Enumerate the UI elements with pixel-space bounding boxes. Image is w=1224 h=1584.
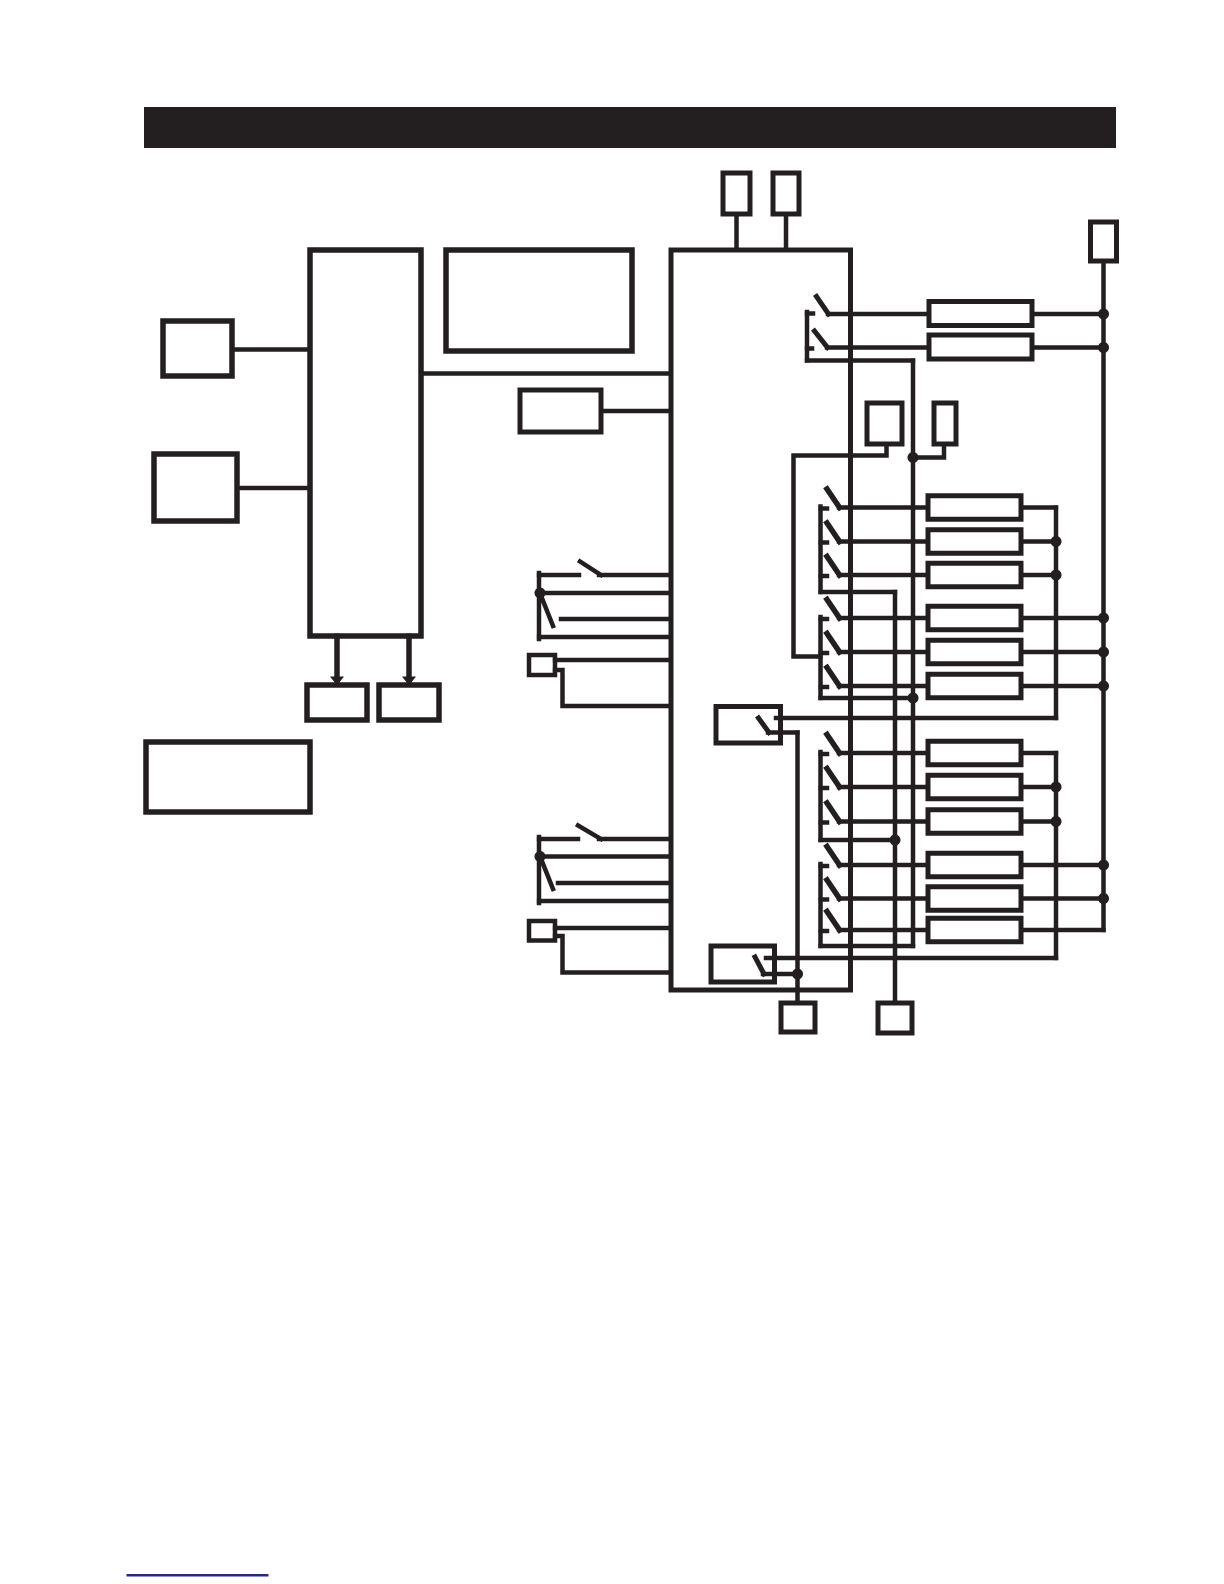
motor box M4: [928, 606, 1021, 630]
switch SW11 stub: [821, 897, 828, 902]
sensor P1: [529, 655, 555, 675]
arrowhead L2: [402, 677, 416, 686]
wire node B to main box: [539, 854, 671, 859]
wire bracket SW1-3 to node V2: [821, 590, 896, 595]
legend box B4: [146, 742, 310, 812]
wire C1 drop: [794, 444, 887, 657]
ground connector G2: [878, 1003, 912, 1033]
wire M7 to bus V5: [1021, 751, 1056, 756]
switch SW5 stub: [821, 651, 828, 656]
connector C2: [934, 403, 956, 444]
junction dot bus V1 / M11: [1098, 893, 1109, 904]
switch SW1 arm: [827, 489, 840, 508]
wire P1 lower lead jog: [555, 670, 671, 706]
fuse box F2 (left lower): [154, 454, 237, 521]
wire F2 to junction block: [237, 486, 310, 491]
wire SW5 to M5: [839, 650, 928, 655]
wire M4 to bus V1: [1021, 616, 1104, 621]
connector T3 (top right): [1091, 222, 1117, 261]
switch SW5 arm: [827, 634, 840, 653]
switch SW9 arm: [827, 803, 840, 822]
switch SW4 arm: [827, 600, 840, 619]
junction dot node B: [535, 851, 546, 862]
wire SW9 to M9: [839, 819, 928, 824]
switch SW1 stub: [821, 506, 828, 511]
bracket SW4-6 vertical: [818, 617, 823, 698]
junction dot bus V1 / M6: [1098, 681, 1109, 692]
junction dot V2 / bracket SW7-9: [890, 835, 901, 846]
switch SA1 arm: [817, 297, 829, 315]
switch SW2 stub: [821, 540, 828, 545]
switch SW4 stub: [821, 617, 828, 622]
switch SW3 arm: [827, 557, 840, 576]
wire M11 to bus V1: [1021, 896, 1104, 901]
motor box M5: [928, 640, 1021, 664]
switch SW12 arm: [827, 912, 840, 931]
bracket SW7-9 vertical: [818, 752, 823, 840]
motor box M3: [928, 563, 1021, 587]
bracket SW10-12 vertical: [818, 864, 823, 946]
wire SA1 to CB1: [828, 312, 929, 317]
relay switch box K1: [716, 707, 781, 744]
wire M12 to bus V1: [1021, 928, 1104, 933]
relay K2 arm: [755, 957, 764, 974]
switch SW9 stub: [821, 820, 828, 825]
relay switch box K2: [711, 946, 775, 982]
switch SW3 stub: [821, 574, 828, 579]
bracket SA vertical: [805, 312, 810, 361]
switch SA2 arm: [815, 331, 828, 348]
wire K1 arm lead: [768, 730, 798, 735]
switch SW12 stub: [821, 929, 828, 934]
wire bracket bottom to main box: [539, 635, 671, 640]
connector C1: [867, 403, 902, 444]
wire M6 to bus V1: [1021, 684, 1104, 689]
wire CB2 to bus V1: [1032, 345, 1104, 350]
motor box M8: [928, 775, 1021, 799]
wire bracket SW4-6 to node V3: [821, 696, 914, 701]
wire SW1 to M1: [839, 505, 928, 510]
switch SW2 arm: [827, 523, 840, 542]
fuse box F1 (left upper): [163, 321, 232, 376]
switch S3 arm: [578, 826, 601, 840]
wire T1 to main box: [734, 214, 739, 250]
wire M9 to bus V5: [1021, 819, 1056, 824]
wire bracket SW7-9 to node V2: [821, 838, 896, 843]
motor box M12: [928, 918, 1021, 942]
switch SW11 arm: [827, 880, 840, 899]
switch SW7 stub: [821, 752, 828, 757]
switch SA2 stub: [807, 346, 812, 351]
wire M5 to bus V1: [1021, 650, 1104, 655]
arrowhead L1: [330, 677, 344, 686]
wire bracket2 bottom to main box: [539, 899, 671, 904]
wire K2 arm lead: [763, 972, 798, 977]
switch S4 arm: [542, 860, 554, 889]
wire SW4 to M4: [839, 616, 928, 621]
junction block B1: [310, 250, 421, 636]
wire M1 to bus V4: [1021, 505, 1056, 510]
motor box M1: [928, 496, 1021, 520]
ground connector G1: [781, 1003, 815, 1032]
junction dot bus V5 / M8: [1051, 782, 1062, 793]
junction dot K2 arm / G1 drop: [792, 969, 803, 980]
title bar: [144, 107, 1116, 148]
wire SW11 to M11: [839, 896, 928, 901]
bracket S1/S2 vertical: [537, 573, 542, 639]
junction dot bus V4 / M2: [1051, 536, 1062, 547]
junction dot node A: [535, 588, 546, 599]
wire T2 to main box: [784, 214, 789, 250]
arrow lead to L1: [334, 636, 340, 678]
junction dot bus V1 / M4: [1098, 613, 1109, 624]
wire F1 to junction block: [232, 347, 310, 352]
motor box M2: [928, 530, 1021, 554]
motor box M7: [928, 741, 1021, 765]
bracket SW1-3 vertical: [818, 507, 823, 593]
output box L1: [307, 685, 367, 720]
switch SW7 arm: [827, 735, 840, 754]
wire CB1 to bus V1: [1032, 312, 1104, 317]
junction dot bus V1 / M5: [1098, 647, 1109, 658]
junction dot bus V4 / M3: [1051, 570, 1062, 581]
wire C2 drop to node V3: [913, 444, 944, 458]
switch S1 fixed lead: [539, 573, 579, 578]
junction dot bus V5 / M9: [1051, 816, 1062, 827]
wire K1 fixed lead to node V4: [776, 716, 1056, 721]
wire junction block to main box: [421, 371, 671, 376]
motor box M6: [928, 674, 1021, 698]
switch SW6 stub: [821, 685, 828, 690]
sensor P2: [529, 921, 555, 941]
wire SW7 to M7: [839, 751, 928, 756]
bracket S3/S4 vertical: [537, 837, 542, 903]
switch SW10 stub: [821, 864, 828, 869]
wire B3 to main box: [601, 409, 671, 414]
wire M10 to bus V1: [1021, 863, 1104, 868]
wire SW6 to M6: [839, 684, 928, 689]
wire SW8 to M8: [839, 785, 928, 790]
wire bracket SW10-12 to node V3: [821, 944, 914, 949]
wire K2 fixed lead to node V5: [766, 956, 1056, 961]
output box L2: [379, 685, 439, 720]
wire K1 arm drop to G1: [795, 733, 800, 1003]
wire P2 upper lead: [555, 926, 671, 931]
switch S3 fixed lead: [539, 837, 578, 842]
wire SW2 to M2: [839, 539, 928, 544]
switch SW8 arm: [827, 769, 840, 788]
wire P2 lower lead jog: [555, 936, 671, 973]
junction dot V3 / bracket SW4-6: [908, 693, 919, 704]
junction dot V3 / C2: [908, 452, 919, 463]
motor box M10: [928, 853, 1021, 877]
junction dot bus V1 / CB2: [1098, 342, 1109, 353]
wire S4 contact to main box: [558, 881, 671, 886]
arrow lead to L2: [406, 636, 412, 678]
ignition key box B3: [520, 390, 601, 432]
switch SW8 stub: [821, 786, 828, 791]
footer blue rule: [127, 1574, 269, 1577]
wire node A to main box: [539, 591, 671, 596]
relay K1 arm: [759, 718, 770, 733]
circuit breaker CB2: [929, 335, 1032, 359]
motor box M11: [928, 887, 1021, 911]
switch SW10 arm: [827, 847, 840, 866]
wire SW3 to M3: [839, 573, 928, 578]
bus V1 vertical: [1101, 261, 1106, 930]
switch SA1 stub: [807, 311, 813, 316]
relay box B2: [446, 250, 632, 351]
connector T1: [723, 173, 750, 214]
junction dot bus V1 / M10: [1098, 860, 1109, 871]
switch S1 arm: [580, 562, 601, 576]
connector T2: [773, 173, 799, 214]
switch SW6 arm: [827, 668, 840, 687]
main switch box U1: [671, 250, 851, 990]
bus V2 vertical: [893, 592, 898, 1002]
wire SW12 to M12: [839, 928, 928, 933]
wire S3 to main box: [599, 837, 671, 842]
bus V4 vertical upper: [1054, 508, 1059, 719]
bus V5 vertical lower: [1054, 753, 1059, 958]
wire SW10 to M10: [839, 863, 928, 868]
wire SA2 to CB2: [827, 345, 929, 350]
switch S2 arm: [542, 597, 554, 626]
wire SA bracket to node V3: [807, 358, 913, 363]
circuit breaker CB1: [929, 302, 1032, 326]
wire M3 to bus V4: [1021, 573, 1056, 578]
wire P1 upper lead: [555, 658, 671, 663]
junction dot bus V1 / CB1: [1098, 309, 1109, 320]
wire S2 contact to main box: [561, 617, 671, 622]
motor box M9: [928, 810, 1021, 834]
wire S1 to main box: [599, 573, 671, 578]
wire M2 to bus V4: [1021, 539, 1056, 544]
bus V3 vertical: [911, 361, 916, 947]
wire M8 to bus V5: [1021, 785, 1056, 790]
